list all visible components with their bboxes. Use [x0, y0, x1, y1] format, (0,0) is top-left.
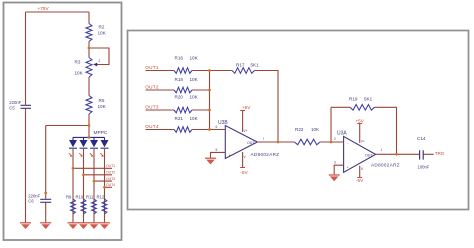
svg-text:OUT3: OUT3	[145, 104, 159, 109]
svg-text:R10: R10	[76, 194, 84, 199]
svg-text:V-: V-	[244, 155, 247, 159]
svg-text:OUT3: OUT3	[106, 177, 115, 181]
svg-text:1: 1	[381, 148, 383, 152]
svg-text:220nF: 220nF	[9, 100, 21, 105]
svg-text:R16: R16	[175, 55, 184, 60]
svg-text:5K1: 5K1	[251, 63, 260, 68]
svg-text:5K1: 5K1	[364, 97, 373, 102]
svg-text:10K: 10K	[311, 127, 320, 132]
svg-text:2: 2	[99, 59, 101, 63]
svg-text:3: 3	[334, 161, 336, 165]
svg-text:+5V: +5V	[356, 118, 365, 123]
svg-text:OUT1: OUT1	[106, 164, 115, 168]
svg-text:C5: C5	[9, 106, 15, 111]
svg-text:OUT2: OUT2	[145, 84, 159, 89]
svg-text:6: 6	[216, 125, 218, 129]
svg-text:OUT: OUT	[247, 141, 255, 145]
svg-text:OUT4: OUT4	[145, 124, 159, 129]
svg-text:+: +	[347, 165, 349, 169]
svg-text:10K: 10K	[75, 71, 84, 76]
svg-text:10K: 10K	[190, 77, 199, 82]
svg-text:R17: R17	[236, 63, 245, 68]
svg-text:U3B: U3B	[218, 120, 228, 126]
svg-text:R19: R19	[349, 97, 358, 102]
svg-text:-: -	[347, 141, 348, 145]
svg-text:C14: C14	[417, 136, 426, 141]
svg-text:2: 2	[334, 137, 336, 141]
svg-text:OUT1: OUT1	[145, 65, 159, 70]
svg-text:-5V: -5V	[356, 178, 364, 183]
svg-text:R21: R21	[175, 116, 184, 121]
svg-text:OUT: OUT	[365, 154, 373, 158]
svg-text:R5: R5	[99, 98, 105, 103]
svg-text:OUT4: OUT4	[106, 183, 115, 187]
svg-text:R12: R12	[97, 194, 105, 199]
svg-text:10K: 10K	[190, 94, 199, 99]
svg-text:TRG: TRG	[435, 151, 445, 156]
svg-text:5: 5	[216, 148, 218, 152]
svg-text:10K: 10K	[98, 104, 107, 109]
svg-text:-: -	[229, 129, 230, 133]
svg-text:OUT2: OUT2	[106, 171, 115, 175]
svg-text:10K: 10K	[98, 31, 107, 36]
svg-text:R2: R2	[99, 25, 105, 30]
svg-text:R20: R20	[175, 94, 184, 99]
svg-text:V+: V+	[244, 129, 248, 133]
svg-text:10K: 10K	[190, 55, 199, 60]
svg-text:7: 7	[263, 137, 265, 141]
svg-text:100nF: 100nF	[418, 165, 430, 170]
svg-text:R9: R9	[66, 194, 72, 199]
svg-text:AD8002ARZ: AD8002ARZ	[251, 152, 280, 157]
svg-text:R18: R18	[175, 77, 184, 82]
svg-text:R3: R3	[75, 60, 81, 65]
svg-text:+: +	[229, 153, 231, 157]
svg-text:AD8002ARZ: AD8002ARZ	[371, 162, 400, 167]
svg-text:MPPC: MPPC	[94, 130, 108, 136]
svg-text:-5V: -5V	[241, 170, 249, 175]
svg-text:C6: C6	[28, 199, 34, 204]
svg-text:R11: R11	[86, 194, 94, 199]
svg-text:R22: R22	[295, 127, 304, 132]
svg-text:V-: V-	[361, 167, 364, 171]
svg-text:U3A: U3A	[337, 130, 347, 136]
svg-text:+5V: +5V	[242, 105, 251, 110]
svg-text:V+: V+	[361, 140, 365, 144]
svg-text:+75V: +75V	[38, 6, 50, 11]
svg-text:10K: 10K	[190, 116, 199, 121]
